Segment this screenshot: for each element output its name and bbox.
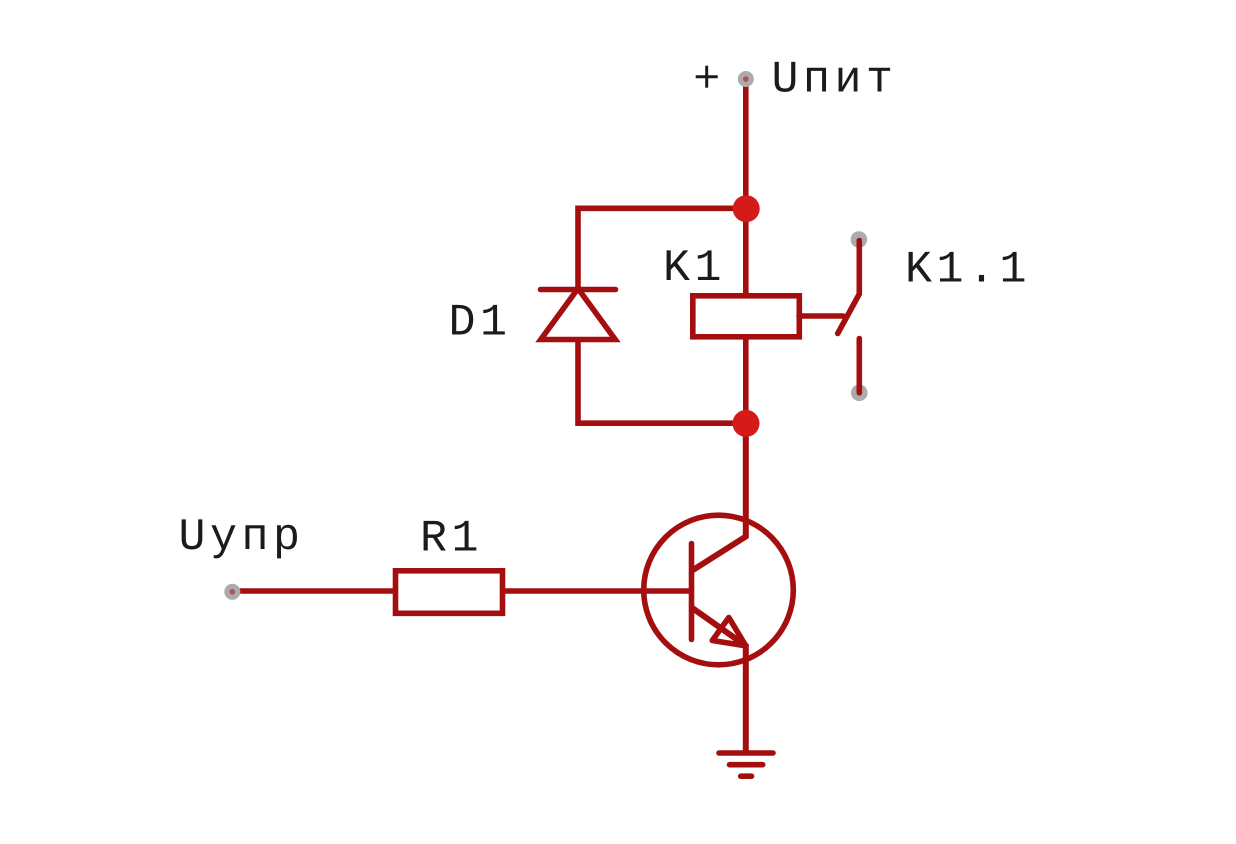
wire: contact top lead and switch K1.1 lever bbox=[838, 241, 860, 334]
transistor Q1 emitter arrowhead bbox=[712, 618, 746, 646]
resistor R1 bbox=[396, 571, 503, 614]
wire: contact bottom lead bbox=[856, 339, 862, 393]
ground bar 3 bbox=[741, 773, 752, 779]
wire: Uпит terminal down to node A bbox=[743, 80, 749, 208]
svg-text:K1.1: K1.1 bbox=[905, 245, 1031, 296]
transistor Q1 emitter diagonal, wire down to ground bbox=[693, 609, 746, 753]
svg-text:Uупр: Uупр bbox=[179, 512, 305, 563]
plus sign of Uпит bbox=[696, 75, 718, 78]
svg-text:Uпит: Uпит bbox=[772, 55, 898, 106]
ground bar 1 bbox=[719, 750, 773, 756]
wire: node B down, transistor Q1 collector diagonal bbox=[693, 423, 746, 570]
wire: D1 anode down and bottom horizontal to node B bbox=[578, 342, 746, 423]
wire: Uупр terminal to R1 bbox=[240, 588, 395, 594]
wire: base wire from R1 to base bar bbox=[505, 588, 689, 594]
terminal: contact top bbox=[851, 231, 868, 248]
svg-text:K1: K1 bbox=[663, 243, 726, 294]
wire: top horizontal from node A down to D1 cathode bbox=[578, 208, 746, 289]
svg-text:D1: D1 bbox=[449, 297, 512, 348]
diode D1 cathode bar bbox=[541, 287, 616, 293]
transistor Q1 base bar bbox=[689, 544, 695, 640]
terminal: contact bottom bbox=[851, 385, 868, 402]
ground bar 2 bbox=[730, 762, 763, 768]
diode D1 triangle bbox=[541, 289, 615, 340]
wire: node A down through relay coil to node B bbox=[743, 208, 749, 423]
svg-text:R1: R1 bbox=[420, 514, 483, 565]
wire: relay coil stub to contact bbox=[799, 313, 843, 319]
node A junction dot bbox=[733, 195, 760, 222]
transistor Q1 circle bbox=[644, 515, 794, 665]
relay coil K1 bbox=[693, 296, 800, 337]
node B junction dot bbox=[733, 410, 760, 437]
terminal: Uупр bbox=[224, 584, 240, 600]
terminal: Uпит bbox=[738, 71, 754, 87]
